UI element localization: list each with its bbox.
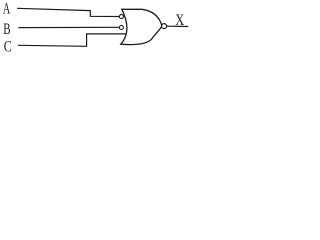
inversion bubble on gate output	[162, 24, 167, 29]
wire B: straight from label B to gate input 2	[18, 26, 119, 28]
svg-text:A: A	[3, 0, 11, 17]
OR-shape gate body U1	[121, 9, 162, 44]
wire A: from label A, jog down at x=90.7 to gate input 1	[17, 8, 119, 16]
inversion bubble on input A	[119, 15, 123, 19]
svg-text:C: C	[4, 38, 12, 55]
svg-text:B: B	[3, 21, 10, 38]
inversion bubble on input B	[119, 26, 123, 30]
wire X: output wire	[167, 25, 189, 27]
wire C: from label C, jog up at x=86.6 to gate input 3 (no bubble)	[18, 34, 127, 46]
